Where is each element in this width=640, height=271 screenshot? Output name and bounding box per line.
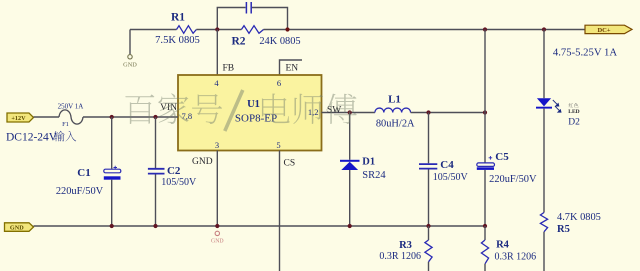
wire output riser to top rail [484,30,486,113]
resistor R4 [484,226,486,240]
feedback capacitor branch wires [217,8,287,30]
svg-text:DC+: DC+ [597,27,610,34]
capacitor C4 [428,113,430,164]
svg-text:GND: GND [192,157,213,167]
svg-text:105/50V: 105/50V [161,177,197,188]
svg-text:0.3R 1206: 0.3R 1206 [379,251,421,262]
node output riser junction [483,27,487,31]
resistor R3 [428,226,430,240]
svg-text:L1: L1 [388,93,401,105]
fuse F1 [59,110,83,124]
capacitor C2 [155,117,157,168]
connector flag +12V [7,113,34,122]
capacitor C (feedback, unlabeled) [246,2,251,14]
wire +12V to fuse [34,116,60,118]
svg-text:R4: R4 [496,240,510,251]
svg-text:GND: GND [10,225,24,232]
svg-text:4.75-5.25V 1A: 4.75-5.25V 1A [553,47,618,59]
svg-text:GND: GND [211,239,224,245]
svg-text:220uF/50V: 220uF/50V [489,174,537,185]
svg-text:C5: C5 [495,151,509,163]
svg-text:C4: C4 [440,159,454,171]
wire pin 3 to ground rail [216,151,218,227]
svg-text:6: 6 [277,78,281,88]
node LED branch junction [542,27,546,31]
svg-text:250V 1A: 250V 1A [58,103,84,111]
resistor R2 [241,26,263,34]
svg-text:LED: LED [568,109,579,115]
node L1/C4 junction [426,110,430,114]
wire ground rail [34,225,486,227]
node C4-R3/ground [426,224,430,228]
svg-text:C2: C2 [167,165,181,177]
wire top-left from GND stub to R1 [130,30,177,55]
label red LED D2 [569,103,573,107]
svg-text:D1: D1 [362,156,375,167]
svg-text:24K 0805: 24K 0805 [259,36,300,47]
svg-text:R3: R3 [399,240,412,251]
svg-text:FB: FB [223,64,235,74]
svg-text:+12V: +12V [11,115,26,122]
node SW/D1 junction [348,110,352,114]
node input/C2 junction [153,115,157,119]
capacitor C1 (polarized) [111,117,113,169]
svg-text:C1: C1 [77,167,90,179]
power port GND (top left) [128,55,132,59]
svg-text:0.3R 1206: 0.3R 1206 [495,252,537,263]
node D1/ground [348,224,352,228]
svg-text:SR24: SR24 [362,170,386,181]
connector flag GND [5,223,34,232]
svg-text:R5: R5 [557,224,570,235]
wire R1 to node FB [196,29,241,31]
wire DC+ node down to LED [543,30,545,99]
capacitor C5 (polarized) [484,113,486,163]
svg-text:CS: CS [284,159,296,169]
wire EN stub [280,60,303,75]
wire pin 5 CS down across ground rail [279,151,281,271]
LED arrows [553,100,561,112]
svg-text:D2: D2 [568,117,580,127]
wire LED to R5 [543,109,545,213]
connector flag DC+ [585,25,632,33]
svg-text:220uF/50V: 220uF/50V [56,186,104,197]
svg-text:5: 5 [276,140,280,150]
svg-text:R2: R2 [231,35,245,47]
svg-text:3: 3 [215,140,219,150]
node pin3/ground [215,224,219,228]
svg-text:7.5K 0805: 7.5K 0805 [155,35,200,46]
node C5-R4/ground [483,224,487,228]
wire R5 down [543,232,545,271]
node C2/ground [153,224,157,228]
inductor L1 [375,108,411,112]
resistor R5 [540,213,547,232]
svg-text:EN: EN [286,64,299,74]
wire SW pins to L1 [322,112,375,114]
svg-text:GND: GND [123,62,137,69]
svg-text:U1: U1 [247,99,260,110]
svg-text:105/50V: 105/50V [433,172,469,183]
node input/C1 junction [110,115,114,119]
svg-text:4.7K 0805: 4.7K 0805 [557,212,601,223]
node C1/ground [110,224,114,228]
svg-text:F1: F1 [62,121,69,128]
wire FB node to pin 4 [216,30,218,76]
svg-text:DC12-24V: DC12-24V [6,132,58,144]
wire fuse to VIN pins [83,116,178,118]
diode D1 SR24 [349,113,351,160]
node R1/R2/FB junction [215,27,219,31]
op-amp / regulator IC U1 SOP8-EP [178,75,322,151]
svg-text:R1: R1 [171,12,185,24]
wire L1 to output riser [411,112,485,114]
node R2 right junction [285,27,289,31]
power port GND (red) [215,231,219,235]
watermark 百家号/电师傅 [125,90,356,131]
svg-text:80uH/2A: 80uH/2A [376,119,415,130]
node output/C5 junction [483,110,487,114]
wire top rail to DC+ [264,29,586,31]
resistor R1 [177,26,197,34]
LED D2 [537,98,551,106]
